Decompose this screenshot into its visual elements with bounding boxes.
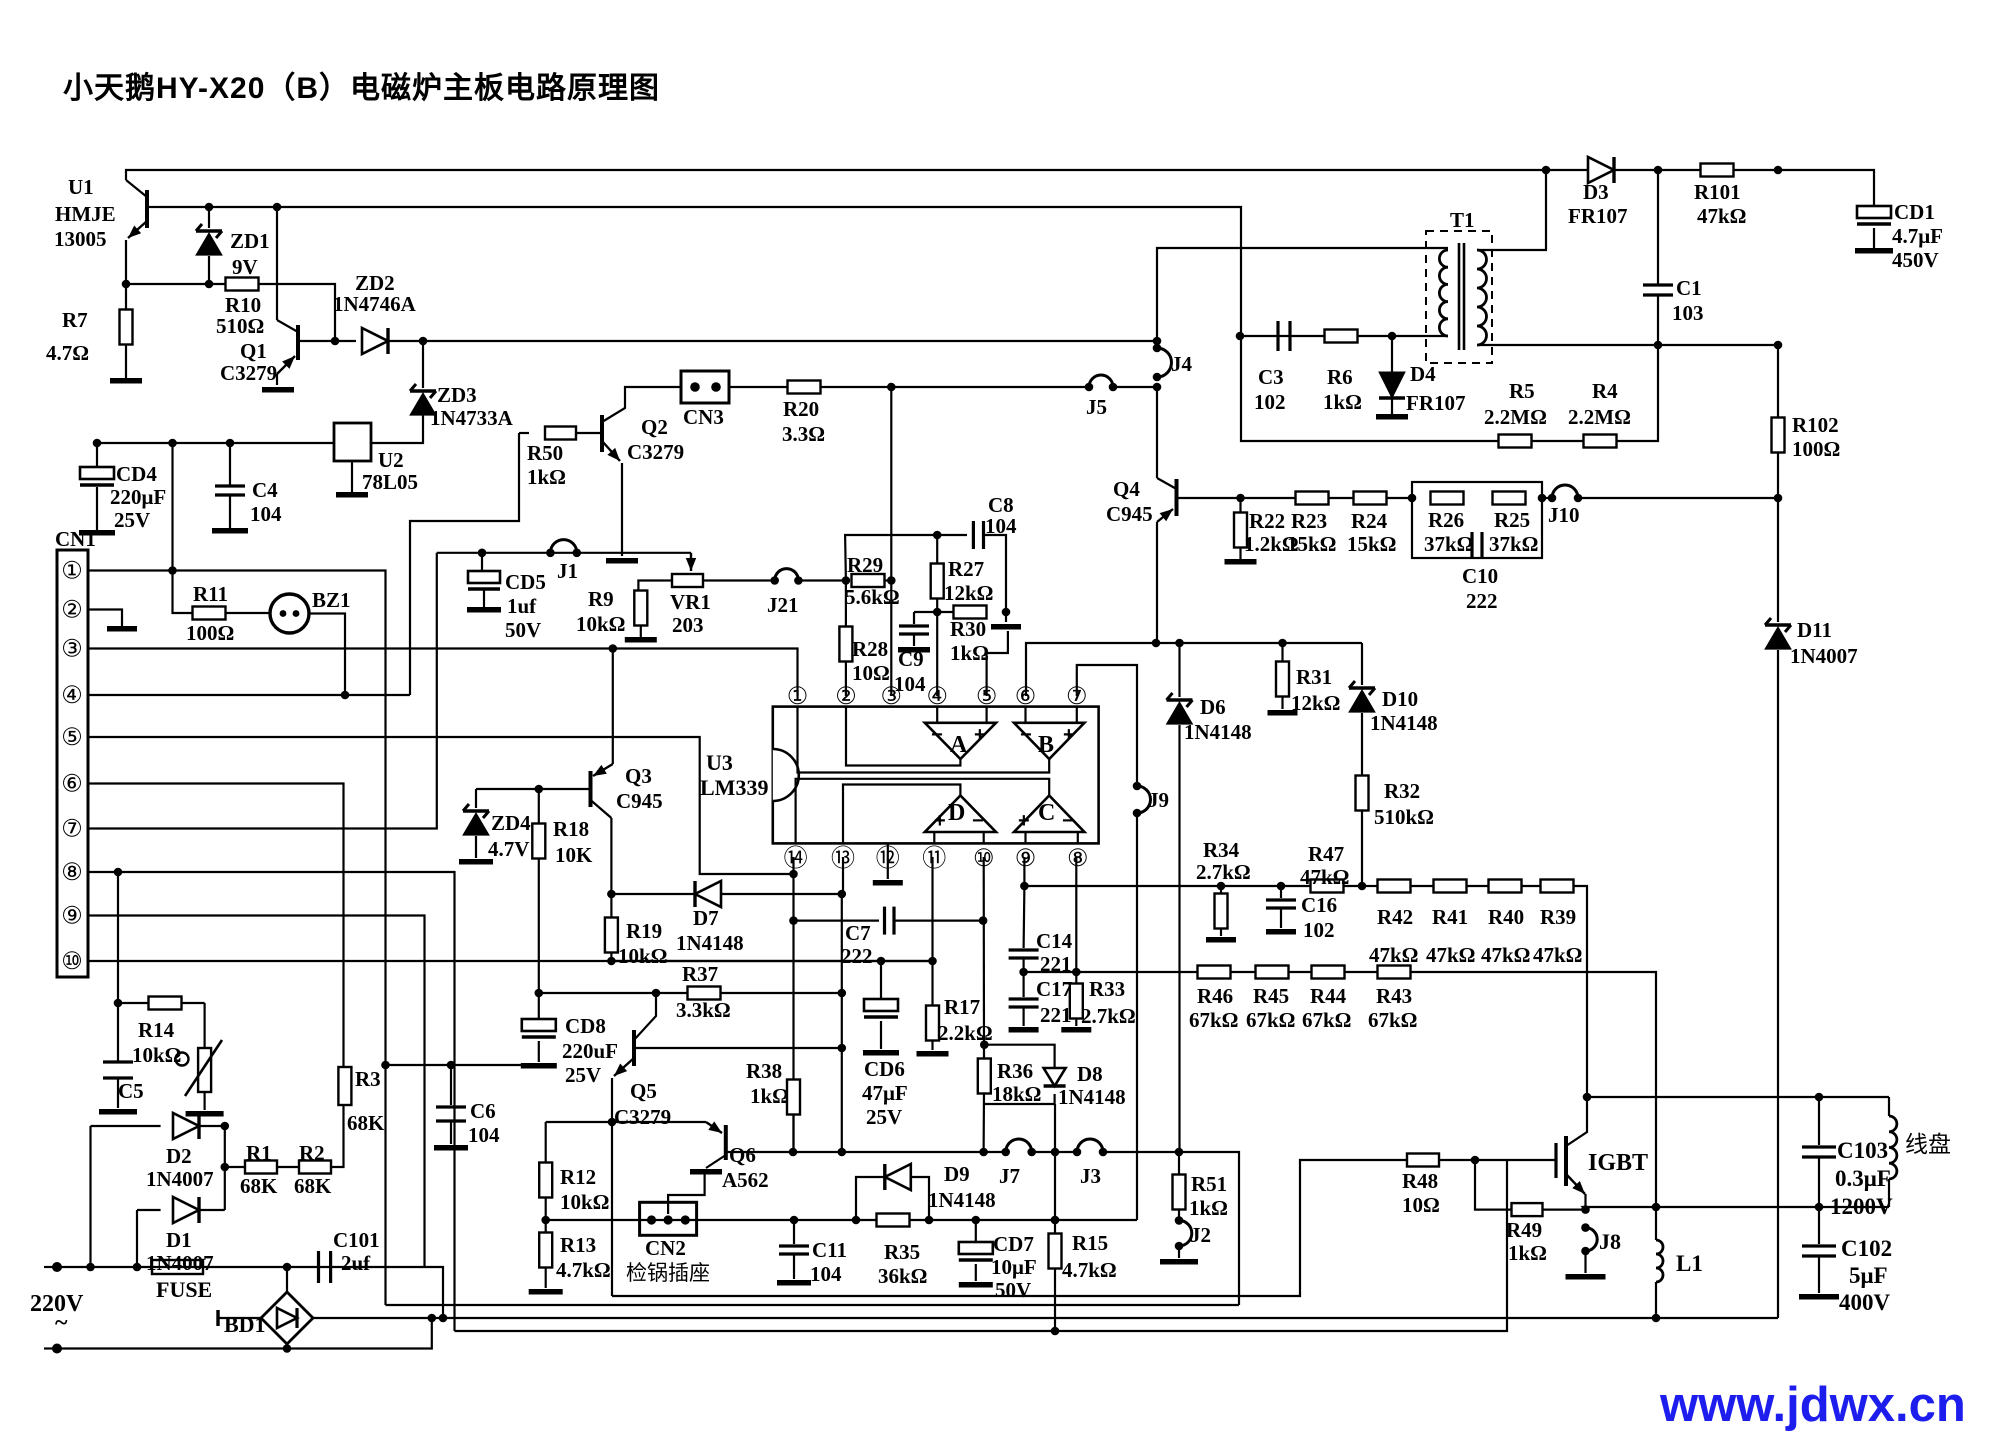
pin 3 CN1 — [61, 636, 83, 663]
label R48 — [1402, 1169, 1438, 1193]
label C16 102 — [1303, 918, 1335, 942]
label R29 — [847, 553, 883, 577]
label R4 2.2M — [1568, 405, 1631, 429]
node R49 top — [1471, 1156, 1480, 1165]
node D1 fuse — [133, 1263, 142, 1272]
label R49 — [1506, 1218, 1542, 1242]
label R102 — [1792, 413, 1839, 437]
capacitor C16 — [1266, 886, 1296, 935]
svg-text:12kΩ: 12kΩ — [944, 581, 994, 605]
label J4 — [1171, 352, 1193, 376]
svg-text:R32: R32 — [1384, 779, 1420, 803]
capacitor CD5 — [467, 553, 501, 613]
node pin9 row — [1020, 882, 1029, 891]
label R27 — [948, 557, 984, 581]
wire CN1 pin10 — [88, 960, 933, 962]
resistor R35 — [877, 1214, 910, 1227]
label D4 — [1410, 362, 1436, 386]
capacitor CD4 — [79, 443, 115, 536]
wire R37 row — [539, 992, 842, 994]
svg-text:9V: 9V — [232, 255, 258, 279]
label D8 — [1077, 1062, 1103, 1086]
svg-text:67kΩ: 67kΩ — [1246, 1008, 1296, 1032]
label CN2 — [645, 1236, 686, 1260]
svg-text:C102: C102 — [1841, 1236, 1892, 1261]
wire pin7 jog J9 — [1077, 665, 1137, 786]
resistor R22 — [1225, 498, 1257, 565]
transistor Q4 — [1157, 478, 1241, 643]
label J10 — [1548, 503, 1580, 527]
label Q5 — [630, 1079, 657, 1103]
svg-text:R24: R24 — [1351, 509, 1388, 533]
wire top to CD1 — [1778, 170, 1874, 206]
wire pin9col to C14 — [1022, 886, 1025, 948]
svg-text:R30: R30 — [950, 617, 986, 641]
label R14 — [138, 1018, 175, 1042]
wire J10 to R102 col — [1578, 497, 1778, 499]
svg-text:BD1: BD1 — [224, 1312, 266, 1337]
svg-text:IGBT: IGBT — [1588, 1150, 1648, 1176]
node pin3 Q3col — [609, 644, 618, 653]
label C10 222 — [1466, 589, 1498, 613]
label R50 — [527, 441, 563, 465]
svg-text:L1: L1 — [1676, 1251, 1703, 1276]
svg-text:R28: R28 — [852, 637, 888, 661]
svg-text:68K: 68K — [347, 1111, 385, 1135]
pin 14 U3 — [784, 845, 808, 872]
label C1 — [1676, 276, 1702, 300]
svg-text:D6: D6 — [1200, 695, 1226, 719]
svg-text:102: 102 — [1254, 390, 1286, 414]
node pin13 row — [838, 1148, 847, 1157]
label R26 37k — [1424, 532, 1474, 556]
coil pan — [1889, 1097, 1897, 1207]
capacitor C7 — [794, 907, 895, 935]
svg-text:10kΩ: 10kΩ — [618, 944, 668, 968]
node pin1 R11col — [168, 566, 177, 575]
svg-text:C7: C7 — [845, 921, 871, 945]
label R45 67k — [1246, 1008, 1296, 1032]
svg-text:R12: R12 — [560, 1165, 596, 1189]
resistor R32 — [1356, 776, 1369, 887]
svg-text:①: ① — [787, 683, 809, 710]
label J21 — [767, 593, 799, 617]
node R34 top — [1217, 882, 1226, 891]
potentiometer VR1 — [638, 574, 774, 591]
node CD4 top — [93, 439, 102, 448]
label C101 2uf — [341, 1251, 371, 1275]
label R28 — [852, 637, 888, 661]
label CN1 — [55, 527, 96, 551]
node pin8col R14 — [114, 999, 123, 1008]
resistor R48 — [1407, 1154, 1439, 1167]
label D9 — [944, 1162, 970, 1186]
wire R5 R4 row — [1241, 336, 1498, 441]
wire U1 emitter row y=284 — [126, 283, 210, 285]
label C103 — [1837, 1138, 1888, 1163]
label U2 — [378, 448, 404, 472]
node D6 R51 row — [1175, 1148, 1184, 1157]
node pin8col row — [1072, 968, 1081, 977]
wire CD8 minus row — [386, 1064, 539, 1066]
label R19 10k — [618, 944, 668, 968]
wire emitter row — [1583, 1207, 1889, 1210]
label FUSE — [156, 1277, 212, 1302]
transformer T1 secondary — [1477, 250, 1487, 345]
diode D1 — [173, 1197, 225, 1223]
op-amp A — [925, 723, 996, 759]
label D6 1N4148 — [1184, 720, 1252, 744]
label R32 510k — [1374, 805, 1434, 829]
diode ZD2 — [335, 328, 423, 354]
svg-text:③: ③ — [881, 683, 903, 710]
label CN3 — [683, 405, 724, 429]
svg-text:R102: R102 — [1792, 413, 1839, 437]
wire pin10 column — [982, 857, 985, 1152]
resistor R38 — [787, 1079, 800, 1152]
svg-text:C11: C11 — [812, 1238, 847, 1262]
svg-text:②: ② — [835, 683, 857, 710]
potentiometer VR1 wiper — [686, 553, 696, 571]
node R30 right — [1002, 608, 1011, 617]
svg-text:R9: R9 — [588, 587, 614, 611]
label R47 — [1308, 842, 1344, 866]
transistor Q6 — [706, 1121, 726, 1168]
terminal 220V L — [44, 1262, 62, 1272]
svg-text:D8: D8 — [1077, 1062, 1103, 1086]
op-amp B — [1014, 723, 1084, 759]
wire row j7j3 a — [793, 1151, 1006, 1153]
svg-text:R42: R42 — [1377, 905, 1413, 929]
wire C101 col — [425, 1267, 444, 1318]
jumper J7 — [1001, 1139, 1036, 1156]
label R11 100 — [186, 621, 234, 645]
label CD8 25V — [565, 1063, 601, 1087]
svg-text:25V: 25V — [114, 508, 150, 532]
label CD8 — [565, 1014, 606, 1038]
label U1 HMJE — [55, 202, 116, 226]
ground J8 — [1566, 1251, 1606, 1280]
jumper J9 — [1133, 782, 1151, 818]
label C17 221 — [1040, 1003, 1072, 1027]
wire 220V bottom row — [57, 1316, 432, 1349]
svg-text:C17: C17 — [1036, 977, 1072, 1001]
label R32 — [1384, 779, 1420, 803]
label R102 100 — [1792, 437, 1840, 461]
wire CN1 pin6 — [88, 784, 344, 1068]
buzzer BZ1 — [270, 594, 345, 695]
svg-text:B: B — [1038, 732, 1054, 758]
node ZD1 bottom — [205, 280, 214, 289]
label CD4 — [116, 462, 157, 486]
resistor R31 — [1268, 643, 1298, 716]
label ZD3 1N4733A — [430, 406, 514, 430]
label CD4 25V — [114, 508, 150, 532]
op-amp C — [1014, 796, 1084, 833]
node D6 top — [1175, 639, 1184, 648]
node L1 top — [1652, 1203, 1661, 1212]
label R5 — [1509, 379, 1535, 403]
wire T1 sec top — [1477, 170, 1546, 250]
label R10 510 — [216, 314, 264, 338]
svg-text:222: 222 — [1466, 589, 1498, 613]
inductor L1 — [1656, 1207, 1663, 1318]
svg-text:−: − — [931, 724, 943, 746]
svg-text:50V: 50V — [505, 618, 541, 642]
svg-text:R13: R13 — [560, 1233, 596, 1257]
zener ZD4 — [459, 789, 493, 865]
resistor R39 — [1521, 880, 1574, 893]
svg-text:D9: D9 — [944, 1162, 970, 1186]
label Q2 C3279 — [627, 440, 684, 464]
connector CN2 — [640, 1202, 697, 1235]
wire R4 right — [1617, 345, 1658, 441]
node R24 box — [1408, 494, 1417, 503]
label Q3 C945 — [616, 789, 663, 813]
svg-text:R14: R14 — [138, 1018, 175, 1042]
label R3 — [355, 1067, 381, 1091]
svg-text:R7: R7 — [62, 308, 88, 332]
svg-text:CD6: CD6 — [864, 1057, 905, 1081]
label R46 — [1197, 984, 1233, 1008]
label C101 — [333, 1228, 380, 1252]
wire J9 down — [1136, 813, 1138, 1220]
label CD1 — [1894, 200, 1935, 224]
resistor R11 — [193, 607, 271, 620]
wire Q3 base row — [476, 788, 591, 790]
svg-text:4.7kΩ: 4.7kΩ — [1062, 1258, 1117, 1282]
wire collector row — [1587, 1096, 1889, 1098]
svg-text:C1: C1 — [1676, 276, 1702, 300]
node D8col row1220 — [1051, 1216, 1060, 1225]
svg-text:HMJE: HMJE — [55, 202, 116, 226]
label ZD2 — [355, 271, 395, 295]
label CN2 jianguo — [626, 1262, 710, 1285]
svg-text:R37: R37 — [682, 962, 718, 986]
wire D1 row — [137, 1209, 161, 1211]
label D3 FR107 — [1568, 204, 1628, 228]
svg-text:C945: C945 — [1106, 502, 1153, 526]
svg-text:C14: C14 — [1036, 929, 1073, 953]
label C102 — [1841, 1236, 1892, 1261]
node R101 right — [1774, 166, 1783, 175]
pin 7 CN1 — [61, 816, 83, 843]
resistor R33 — [1061, 857, 1091, 1033]
svg-text:C3279: C3279 — [627, 440, 684, 464]
transistor Q1 — [277, 207, 335, 385]
label R22 1.2k — [1244, 532, 1299, 556]
label R6 1k — [1323, 390, 1362, 414]
label CD5 50V — [505, 618, 541, 642]
svg-text:R20: R20 — [783, 397, 819, 421]
capacitor CD8 — [521, 993, 557, 1069]
capacitor C17 — [1009, 972, 1039, 1033]
svg-text:J7: J7 — [999, 1164, 1020, 1188]
label R48 10 — [1402, 1193, 1440, 1217]
label IGBT — [1588, 1150, 1648, 1176]
svg-text:104: 104 — [985, 514, 1017, 538]
svg-text:Q1: Q1 — [240, 339, 267, 363]
wire R48 to gate — [1439, 1159, 1556, 1161]
node C11 top — [790, 1216, 799, 1225]
label R33 — [1089, 977, 1125, 1001]
label R46 67k — [1189, 1008, 1239, 1032]
resistor R102 — [1772, 345, 1785, 498]
label R20 — [783, 397, 819, 421]
node U1 base ZD1 — [205, 203, 214, 212]
svg-text:R36: R36 — [997, 1059, 1033, 1083]
svg-text:104: 104 — [810, 1262, 842, 1286]
svg-text:R50: R50 — [527, 441, 563, 465]
node bus B 220V — [428, 1314, 437, 1323]
svg-text:+: + — [1063, 724, 1075, 746]
box R36 D8 — [984, 1045, 1054, 1104]
label R23 15k — [1287, 532, 1337, 556]
diode D7 — [611, 881, 841, 907]
ground Q1 emitter — [262, 387, 294, 393]
transformer T1 core — [1459, 243, 1464, 350]
wire Q6 base to row — [726, 1151, 793, 1153]
label CD7 — [993, 1232, 1034, 1256]
svg-text:U2: U2 — [378, 448, 404, 472]
svg-text:J8: J8 — [1599, 1229, 1621, 1254]
svg-text:4.7V: 4.7V — [488, 837, 529, 861]
pin 7 U3 — [1066, 683, 1088, 710]
wire CN1 pin3 — [88, 649, 798, 697]
node R102 top — [1774, 341, 1783, 350]
label J5 — [1086, 395, 1107, 419]
label C9 — [898, 647, 924, 671]
node R29 right — [887, 576, 896, 585]
transistor Q5 — [612, 993, 842, 1122]
wire bus A pin1 — [386, 1304, 1240, 1306]
terminal 220V N — [44, 1344, 62, 1354]
resistor R44 — [1288, 966, 1345, 979]
svg-text:1kΩ: 1kΩ — [1508, 1241, 1547, 1265]
wire R12 col — [545, 1122, 547, 1163]
node R27 bottom — [933, 608, 942, 617]
label CD8 220uF — [562, 1039, 618, 1063]
wire D2 row — [91, 1125, 161, 1127]
node R18 bottom CD8 — [535, 989, 544, 998]
label ZD3 — [437, 383, 477, 407]
svg-text:FUSE: FUSE — [156, 1277, 212, 1302]
label C10 — [1462, 564, 1498, 588]
label R12 — [560, 1165, 596, 1189]
label D3 — [1583, 180, 1609, 204]
svg-text:18kΩ: 18kΩ — [992, 1082, 1042, 1106]
zener ZD3 — [371, 341, 436, 443]
label R30 1k — [950, 641, 989, 665]
resistor R41 — [1410, 880, 1467, 893]
svg-text:1kΩ: 1kΩ — [1189, 1196, 1228, 1220]
label R101 — [1694, 180, 1741, 204]
node Q4 emitter — [1152, 639, 1161, 648]
label C16 — [1301, 893, 1337, 917]
label U3 LM339 — [700, 775, 768, 800]
wire D2 left col — [89, 1126, 91, 1267]
svg-text:Q2: Q2 — [641, 415, 668, 439]
node C101 col — [439, 1314, 448, 1323]
resistor R15 — [1049, 1220, 1062, 1331]
label R15 — [1072, 1231, 1108, 1255]
svg-text:CD5: CD5 — [505, 570, 546, 594]
capacitor C102 — [1799, 1207, 1839, 1300]
wire CN1 pin5 — [88, 737, 794, 874]
label R7 4.7 — [46, 341, 89, 365]
svg-text:CD4: CD4 — [116, 462, 157, 486]
svg-text:4.7μF: 4.7μF — [1892, 224, 1943, 248]
capacitor C8 — [973, 521, 1006, 612]
svg-text:12kΩ: 12kΩ — [1291, 691, 1341, 715]
label R28 10 — [852, 661, 890, 685]
label R14 10k — [132, 1043, 182, 1067]
svg-text:Q5: Q5 — [630, 1079, 657, 1103]
wire row j7j3 c — [1103, 1152, 1239, 1305]
svg-text:510Ω: 510Ω — [216, 314, 264, 338]
label C102 400V — [1839, 1290, 1891, 1315]
node pin8 col — [114, 868, 123, 877]
node J4 top — [1153, 337, 1162, 346]
node BD1 bottom — [283, 1344, 292, 1353]
label CD6 — [864, 1057, 905, 1081]
resistor R20 — [729, 381, 1089, 394]
label R17 2.2k — [938, 1021, 993, 1045]
svg-text:R4: R4 — [1592, 379, 1618, 403]
label BZ1 — [312, 588, 351, 612]
svg-text:Q6: Q6 — [729, 1143, 756, 1167]
label R23 — [1291, 509, 1327, 533]
wire R1 row — [225, 1166, 245, 1168]
wire pin13 column — [842, 857, 843, 1152]
node R38 bottom — [789, 1148, 798, 1157]
svg-text:R6: R6 — [1327, 365, 1353, 389]
svg-text:50V: 50V — [995, 1278, 1031, 1302]
label T1 — [1450, 208, 1475, 232]
svg-text:10K: 10K — [555, 843, 593, 867]
wire D11 down — [1777, 650, 1779, 1318]
node ZD2 right — [419, 337, 428, 346]
ground Q2 emitter — [606, 558, 638, 564]
node pin11 R17 — [928, 957, 937, 966]
svg-text:R38: R38 — [746, 1059, 782, 1083]
label R10 — [225, 293, 261, 317]
label D7 — [693, 906, 719, 930]
jumper J4 — [1153, 344, 1172, 382]
diode D2 — [173, 1113, 225, 1139]
label ZD4 — [491, 811, 531, 835]
label R27 12k — [944, 581, 994, 605]
node Q3 emitter D7 — [607, 890, 616, 899]
svg-text:⑥: ⑥ — [61, 771, 83, 798]
resistor R17 — [917, 857, 949, 1057]
label R51 — [1191, 1172, 1227, 1196]
bridge BD1 — [218, 1267, 313, 1349]
svg-text:⑤: ⑤ — [976, 683, 998, 710]
svg-text:450V: 450V — [1892, 248, 1939, 272]
svg-text:0.3μF: 0.3μF — [1835, 1166, 1891, 1191]
svg-text:2.2MΩ: 2.2MΩ — [1484, 405, 1547, 429]
label R36 — [997, 1059, 1033, 1083]
resistor R42 — [1362, 880, 1411, 893]
wire T1 sec bottom row y=345 — [1477, 344, 1778, 346]
label R41 — [1432, 905, 1468, 929]
resistor R12 — [539, 1163, 552, 1221]
capacitor C5 — [99, 1062, 137, 1115]
label R44 67k — [1302, 1008, 1352, 1032]
svg-text:37kΩ: 37kΩ — [1489, 532, 1539, 556]
svg-text:R35: R35 — [884, 1240, 920, 1264]
